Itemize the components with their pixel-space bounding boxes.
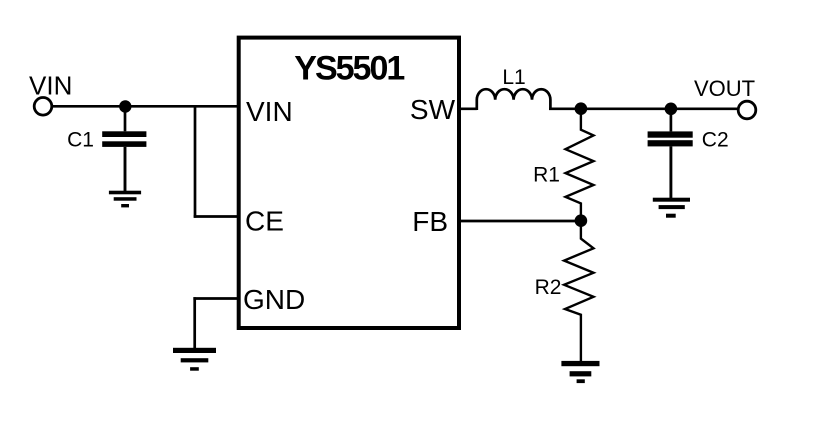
svg-text:YS5501: YS5501 [294, 49, 404, 87]
svg-text:FB: FB [412, 206, 448, 237]
wire FB [459, 220, 581, 223]
ground (R2) [561, 361, 599, 383]
wire C2 upper lead [670, 109, 673, 132]
svg-text:R1: R1 [533, 163, 560, 186]
capacitor C2 [648, 131, 693, 146]
ground (GND pin) [173, 348, 216, 371]
wire C1 upper lead [124, 107, 127, 132]
node C2/VOUT junction [665, 103, 678, 116]
svg-text:GND: GND [243, 284, 305, 315]
resistor R2 [564, 221, 593, 362]
wire CE branch vertical [194, 105, 197, 218]
node VIN/C1 junction [119, 100, 131, 112]
ground (C1) [109, 191, 141, 208]
svg-text:SW: SW [410, 94, 456, 125]
wire CE branch horizontal [194, 215, 241, 218]
svg-text:C1: C1 [67, 128, 94, 151]
wire GND pin horizontal [193, 297, 240, 300]
wire VIN rail [52, 105, 241, 108]
svg-text:R2: R2 [535, 276, 562, 299]
inductor L1 [477, 89, 551, 110]
svg-text:C2: C2 [702, 128, 729, 151]
svg-text:VOUT: VOUT [694, 76, 755, 101]
IC U1 YS5501 [239, 38, 459, 328]
wire L1 to VOUT rail [549, 107, 738, 110]
ground (C2) [653, 198, 690, 218]
svg-text:CE: CE [245, 206, 284, 237]
node SW/R1/L1 junction [575, 102, 588, 115]
capacitor C1 [102, 131, 146, 147]
terminal VIN [34, 98, 52, 116]
svg-text:VIN: VIN [246, 96, 293, 127]
svg-text:VIN: VIN [29, 71, 72, 101]
wire C2 lower lead [669, 146, 672, 198]
terminal VOUT [738, 101, 756, 119]
svg-text:L1: L1 [502, 66, 525, 89]
wire GND pin vertical [193, 297, 196, 348]
wire C1 lower lead [124, 147, 127, 191]
node FB/R1/R2 junction [575, 214, 588, 227]
resistor R1 [566, 109, 594, 221]
wire SW to L1 [457, 107, 477, 110]
